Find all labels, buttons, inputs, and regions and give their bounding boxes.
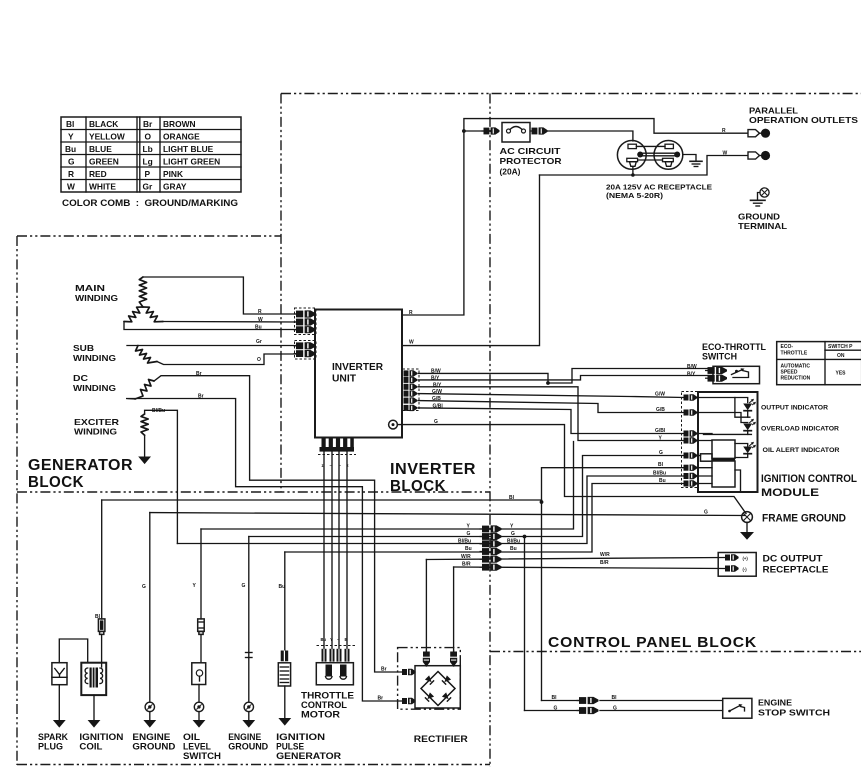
connector pair at AC protector output xyxy=(529,127,547,134)
svg-text:Y: Y xyxy=(68,131,74,141)
svg-text:CONTROL: CONTROL xyxy=(301,700,348,710)
svg-text:Bl: Bl xyxy=(658,462,664,468)
svg-text:B: B xyxy=(345,637,348,642)
svg-text:GROUND: GROUND xyxy=(228,742,268,752)
svg-text:IGNITION CONTROL: IGNITION CONTROL xyxy=(761,473,857,485)
svg-text:Br: Br xyxy=(381,667,387,673)
wire: receptacle ground stub xyxy=(683,155,696,162)
svg-text:Lg: Lg xyxy=(143,156,153,166)
wire Bl bus: ignition coil to module pin6 xyxy=(102,500,542,503)
ignition pulse generator connector xyxy=(281,651,289,662)
svg-text:z: z xyxy=(322,463,324,468)
svg-text:R: R xyxy=(68,169,74,179)
svg-text:R: R xyxy=(258,309,262,315)
svg-text:B/R: B/R xyxy=(462,562,471,568)
svg-text:G/Bl: G/Bl xyxy=(433,403,444,409)
svg-text:OVERLOAD INDICATOR: OVERLOAD INDICATOR xyxy=(761,426,839,433)
LED oil alert indicator xyxy=(743,442,756,454)
svg-text:(+): (+) xyxy=(743,556,749,561)
AC receptacle circle 2 xyxy=(654,141,683,170)
svg-text:SPARK: SPARK xyxy=(38,732,68,742)
svg-text:BROWN: BROWN xyxy=(163,119,196,129)
svg-text:TERMINAL: TERMINAL xyxy=(738,221,787,231)
svg-text:R: R xyxy=(409,310,413,316)
wire: inverter to throttle motor 1 xyxy=(323,452,325,650)
ignition coil ground xyxy=(93,695,95,720)
wire: inverter to throttle motor 2 xyxy=(331,452,333,650)
wire: receptacle bottom to neutral bus xyxy=(540,167,633,176)
svg-text:BLUE: BLUE xyxy=(89,144,112,154)
svg-text:(-): (-) xyxy=(743,567,748,572)
svg-text:DC: DC xyxy=(73,373,88,383)
wire Bl to engine stop switch xyxy=(542,700,580,702)
svg-text:Bl/Bu: Bl/Bu xyxy=(152,408,165,414)
svg-text:MOTOR: MOTOR xyxy=(301,710,341,720)
svg-text:SUB: SUB xyxy=(73,343,94,353)
spark plug P1 xyxy=(52,663,67,685)
svg-text:WINDING: WINDING xyxy=(73,383,116,393)
wire: neutral bottom to outlet 2 xyxy=(633,156,747,176)
connector pair at AC protector input xyxy=(481,127,499,134)
svg-text:UNIT: UNIT xyxy=(332,374,356,385)
svg-text:GENERATOR: GENERATOR xyxy=(28,457,133,474)
inverter left pin group 2 (Gr,O) xyxy=(294,341,317,360)
sub winding coil xyxy=(136,346,158,364)
junction dot Bl branch xyxy=(540,500,544,504)
wire G to engine stop switch xyxy=(525,710,580,712)
svg-text:MODULE: MODULE xyxy=(761,487,819,499)
wire W: main winding to inverter xyxy=(163,321,296,324)
svg-text:B/Y: B/Y xyxy=(687,372,696,378)
svg-text:AC CIRCUIT: AC CIRCUIT xyxy=(500,146,562,156)
svg-text:G/B: G/B xyxy=(656,407,665,413)
frame ground symbol xyxy=(740,512,754,540)
svg-text:ENGINE: ENGINE xyxy=(228,732,261,742)
svg-text:G/Bl: G/Bl xyxy=(655,428,666,434)
rectifier dash-dot box xyxy=(398,648,461,710)
svg-text:GENERATOR: GENERATOR xyxy=(276,751,342,761)
svg-text:BLACK: BLACK xyxy=(89,119,118,129)
svg-text:BLOCK: BLOCK xyxy=(28,474,84,491)
ground terminal symbol xyxy=(751,188,770,206)
svg-text:Lb: Lb xyxy=(143,144,153,154)
wire: inverter to throttle motor 4 xyxy=(346,452,348,650)
svg-text:Bl: Bl xyxy=(66,119,74,129)
svg-text:W/R: W/R xyxy=(461,554,471,560)
wire B/Y: inverter to eco-throttle switch xyxy=(418,376,708,380)
svg-text:(20A): (20A) xyxy=(500,167,521,177)
wire W/R bus: rectifier to DC receptacle xyxy=(426,558,725,560)
svg-text:Bl/Bu: Bl/Bu xyxy=(458,538,471,544)
svg-text:W: W xyxy=(723,150,728,156)
svg-text:CONTROL PANEL BLOCK: CONTROL PANEL BLOCK xyxy=(548,634,757,651)
svg-text:LEVEL: LEVEL xyxy=(183,742,211,752)
svg-text:LIGHT GREEN: LIGHT GREEN xyxy=(163,156,220,166)
svg-text:LIGHT BLUE: LIGHT BLUE xyxy=(163,144,214,154)
svg-text:OIL ALERT INDICATOR: OIL ALERT INDICATOR xyxy=(763,447,840,454)
svg-text:WINDING: WINDING xyxy=(75,293,118,303)
engine ground 2 tick marks xyxy=(246,652,253,654)
svg-text:W/R: W/R xyxy=(600,552,610,558)
rectifier left pins xyxy=(402,669,416,704)
svg-text:G: G xyxy=(242,583,246,589)
svg-text:Bl/Bu: Bl/Bu xyxy=(653,471,666,477)
svg-text:O: O xyxy=(257,357,261,363)
wire: inverter to throttle motor 3 xyxy=(338,452,340,650)
throttle control motor connector xyxy=(317,646,357,662)
wire G: inverter screw to frame ground xyxy=(398,425,747,514)
svg-text:OUTPUT INDICATOR: OUTPUT INDICATOR xyxy=(761,405,828,412)
svg-text:FRAME GROUND: FRAME GROUND xyxy=(762,513,846,525)
svg-text:SWITCH P: SWITCH P xyxy=(828,344,853,350)
svg-text:Gr: Gr xyxy=(143,181,154,191)
wire: W riser from inverter xyxy=(402,175,540,346)
svg-text:BLOCK: BLOCK xyxy=(390,478,446,495)
stop switch connector pins xyxy=(577,697,599,714)
wire G bus: engine ground 1 to frame ground xyxy=(150,513,745,516)
svg-text:(NEMA 5-20R): (NEMA 5-20R) xyxy=(606,193,663,200)
wire G/W: inverter to module pin1 xyxy=(418,394,684,398)
svg-text:STOP SWITCH: STOP SWITCH xyxy=(758,708,830,718)
border: vertical dash-dot divider x=490 (inverter/control panel) xyxy=(489,94,491,768)
wires rect top pins into inner box xyxy=(425,665,427,667)
svg-text:RED: RED xyxy=(89,169,107,179)
svg-text:G: G xyxy=(467,531,471,537)
wire: link top slots xyxy=(636,145,665,147)
border: bottom dash-dot xyxy=(17,764,490,766)
connector element on oil level riser xyxy=(198,619,205,635)
ignition control module box xyxy=(698,392,758,492)
wire: link center dots (double) xyxy=(640,152,677,154)
svg-text:THROTTLE: THROTTLE xyxy=(781,351,808,357)
DC output receptacle box xyxy=(718,553,756,577)
wire Bl/Bu: exciter to bus xyxy=(145,410,178,543)
wire exciter to ground xyxy=(144,435,146,457)
svg-text:B/Y: B/Y xyxy=(431,375,440,381)
wire G bus2: engine ground 2 to module pin5 xyxy=(249,456,684,537)
svg-text:B/W: B/W xyxy=(687,364,697,370)
inverter unit U1 xyxy=(315,310,402,438)
connector element on ignition riser xyxy=(98,619,105,635)
svg-text:SWITCH: SWITCH xyxy=(702,352,737,362)
wire O: sub winding to inverter xyxy=(157,354,296,365)
border: vertical dash-dot divider x=281 (generator/inverter) xyxy=(280,94,282,493)
svg-text:MAIN: MAIN xyxy=(75,283,105,293)
svg-text:B/Y: B/Y xyxy=(433,382,442,388)
svg-text:WHITE: WHITE xyxy=(89,181,116,191)
svg-text:WINDING: WINDING xyxy=(73,353,116,363)
wire G/Bl: inverter to module pin3 xyxy=(418,408,684,434)
module interior wiring xyxy=(698,398,752,492)
inverter bottom connector block xyxy=(318,439,356,455)
svg-text:RECEPTACLE: RECEPTACLE xyxy=(763,565,829,575)
svg-text:RECTIFIER: RECTIFIER xyxy=(414,734,469,744)
svg-text:DC OUTPUT: DC OUTPUT xyxy=(763,554,824,564)
wire R: main winding to inverter xyxy=(143,277,296,314)
svg-text:REDUCTION: REDUCTION xyxy=(781,376,811,382)
junction dot bottom wire xyxy=(631,173,635,177)
svg-text:ON: ON xyxy=(837,353,845,359)
main winding coil (Y config) xyxy=(124,277,163,322)
engine ground 2 bolt xyxy=(244,702,253,711)
svg-text:Y: Y xyxy=(330,637,333,642)
svg-text:ENGINE: ENGINE xyxy=(132,732,170,742)
eco-throttle switch S1 xyxy=(705,366,760,383)
svg-text:INVERTER: INVERTER xyxy=(390,461,476,478)
wire Bu: main winding to inverter xyxy=(124,322,296,330)
svg-text:G: G xyxy=(554,706,558,712)
svg-text:Bu: Bu xyxy=(510,546,517,552)
wire Gr: sub winding to inverter xyxy=(127,345,296,347)
svg-text:GRAY: GRAY xyxy=(163,181,187,191)
svg-text:Br: Br xyxy=(196,371,202,377)
LED output indicator xyxy=(743,399,756,411)
svg-text:G: G xyxy=(434,419,438,425)
svg-text:ECO-THROTTL: ECO-THROTTL xyxy=(702,342,766,352)
border: generator block left dash-dot xyxy=(16,236,18,765)
svg-text:Bu: Bu xyxy=(65,144,76,154)
svg-text:YELLOW: YELLOW xyxy=(89,131,125,141)
svg-text:G: G xyxy=(659,450,663,456)
wire G/B: inverter to module pin2 xyxy=(418,401,684,413)
svg-text:PARALLEL: PARALLEL xyxy=(749,106,798,116)
wire: protector output to receptacle xyxy=(548,131,633,141)
ground arrow exciter xyxy=(138,457,151,465)
border: control panel block separator dash-dot y=651.5 xyxy=(490,651,861,653)
ignition coil riser continuation xyxy=(101,634,103,662)
wire Br2: dc winding to rectifier xyxy=(126,399,402,702)
wire G branch to engine stop switch xyxy=(524,537,526,711)
svg-text:COIL: COIL xyxy=(79,742,103,752)
svg-text:ECO-: ECO- xyxy=(781,344,794,350)
svg-text:OPERATION OUTLETS: OPERATION OUTLETS xyxy=(749,115,858,125)
svg-text:B/R: B/R xyxy=(600,560,609,566)
svg-text:O: O xyxy=(145,131,152,141)
svg-text:Bu: Bu xyxy=(321,637,327,642)
junction dot on B/W step xyxy=(546,381,550,385)
spark plug ground xyxy=(58,685,60,721)
LED overload indicator xyxy=(743,419,756,431)
svg-text:Bu: Bu xyxy=(279,584,286,590)
svg-text:G: G xyxy=(142,584,146,590)
svg-text:Bl/Bu: Bl/Bu xyxy=(507,538,520,544)
svg-text:W: W xyxy=(258,317,263,323)
svg-text:W: W xyxy=(67,181,75,191)
svg-text:EXCITER: EXCITER xyxy=(74,417,119,427)
border: generator/engine block separator dash-dot y=492 xyxy=(17,491,490,493)
spark plug wire from ignition coil xyxy=(59,639,87,663)
svg-text:PLUG: PLUG xyxy=(38,742,63,752)
svg-text:Bl: Bl xyxy=(509,495,515,501)
svg-text:GROUND: GROUND xyxy=(132,742,176,752)
svg-text:YES: YES xyxy=(836,371,847,377)
wire Y bus: oil level switch to module pin4 xyxy=(201,442,574,530)
svg-text:GROUND: GROUND xyxy=(738,212,780,222)
rectifier inner box xyxy=(415,666,460,708)
inverter left pin group 1 (R,W,Bu) xyxy=(294,308,317,335)
parallel outlet 2 xyxy=(723,150,771,160)
wire: protector input xyxy=(464,130,488,132)
svg-text:B/W: B/W xyxy=(431,369,441,375)
rectifier bridge diamond D1-D4 xyxy=(421,672,455,706)
border: top dash-dot of inverter/control block xyxy=(281,93,861,95)
svg-text:THROTTLE: THROTTLE xyxy=(301,691,354,701)
rectifier top pins xyxy=(423,650,457,666)
svg-text:Bu: Bu xyxy=(465,546,472,552)
wire B/Y2: inverter to module pin4 join xyxy=(418,387,684,441)
svg-text:G: G xyxy=(511,531,515,537)
AC receptacle circle 1 xyxy=(617,141,646,170)
oil level switch SW xyxy=(192,663,206,685)
svg-text:ORANGE: ORANGE xyxy=(163,131,200,141)
junction dot R riser / protector branch xyxy=(462,129,466,133)
parallel outlet 1 xyxy=(722,128,770,138)
svg-text:SWITCH: SWITCH xyxy=(183,751,221,761)
svg-text:WINDING: WINDING xyxy=(74,427,117,437)
svg-text:Bu: Bu xyxy=(659,478,666,484)
svg-text:ENGINE: ENGINE xyxy=(758,698,792,708)
wire Bl/Bu bus: exciter to module pin7 xyxy=(177,476,684,544)
wire: R riser from inverter to AC protector / outlets xyxy=(402,119,747,315)
border: generator block top dash-dot xyxy=(17,235,281,237)
wire Bu bus: pulse generator to module pin8 xyxy=(285,484,684,553)
svg-text:PROTECTOR: PROTECTOR xyxy=(500,156,562,166)
svg-text:OIL: OIL xyxy=(183,732,201,742)
module pin connector column (8 pins) xyxy=(682,392,698,488)
throttle control motor M xyxy=(316,663,353,685)
svg-text:R: R xyxy=(722,128,726,134)
ignition coil T1 xyxy=(81,663,106,695)
svg-text:Br: Br xyxy=(378,696,384,702)
svg-text:PULSE: PULSE xyxy=(276,742,304,752)
wire: link bottom slots xyxy=(638,159,663,161)
svg-text:IGNITION: IGNITION xyxy=(276,732,325,742)
svg-text:INVERTER: INVERTER xyxy=(332,362,384,373)
bus connector block (6 pin pairs) xyxy=(480,525,502,570)
svg-text:Bl: Bl xyxy=(552,695,558,701)
svg-text:PINK: PINK xyxy=(163,169,183,179)
color code table xyxy=(61,117,241,208)
svg-text:COLOR COMB : GROUND/MARKING: COLOR COMB : GROUND/MARKING xyxy=(62,198,238,208)
dc winding coil xyxy=(135,380,154,400)
svg-text:G/W: G/W xyxy=(655,392,665,398)
engine stop switch S2 xyxy=(723,698,752,718)
eco-throttle table xyxy=(777,342,861,385)
svg-text:20A 125V AC RECEPTACLE: 20A 125V AC RECEPTACLE xyxy=(606,185,712,192)
svg-text:IGNITION: IGNITION xyxy=(79,732,123,742)
engine ground 1 bolt xyxy=(145,702,154,711)
svg-text:G: G xyxy=(704,510,708,516)
svg-text:Bu: Bu xyxy=(255,325,262,331)
svg-text:G: G xyxy=(68,156,75,166)
exciter winding coil xyxy=(141,414,148,435)
wire B/R bus: rectifier to DC receptacle xyxy=(454,567,725,569)
ignition pulse generator PG xyxy=(278,663,290,686)
svg-text:Br: Br xyxy=(198,394,204,400)
svg-text:P: P xyxy=(145,169,151,179)
svg-text:W: W xyxy=(409,340,414,346)
inverter screw terminal xyxy=(389,420,398,429)
svg-text:Br: Br xyxy=(143,119,153,129)
AC circuit protector CP1 xyxy=(502,123,530,143)
inverter right pin block (6 pins) xyxy=(403,369,420,411)
wire Br1: dc winding to rectifier xyxy=(154,376,402,672)
oil level switch riser continuation xyxy=(200,634,202,662)
svg-text:G/W: G/W xyxy=(432,389,442,395)
svg-text:GREEN: GREEN xyxy=(89,156,119,166)
svg-text:G/B: G/B xyxy=(432,396,441,402)
svg-text:Gr: Gr xyxy=(256,339,262,345)
wires from pins to stop switch box xyxy=(600,700,723,702)
wire B/W: inverter to eco-throttle switch xyxy=(418,369,708,384)
ground bars at receptacle xyxy=(690,161,702,166)
